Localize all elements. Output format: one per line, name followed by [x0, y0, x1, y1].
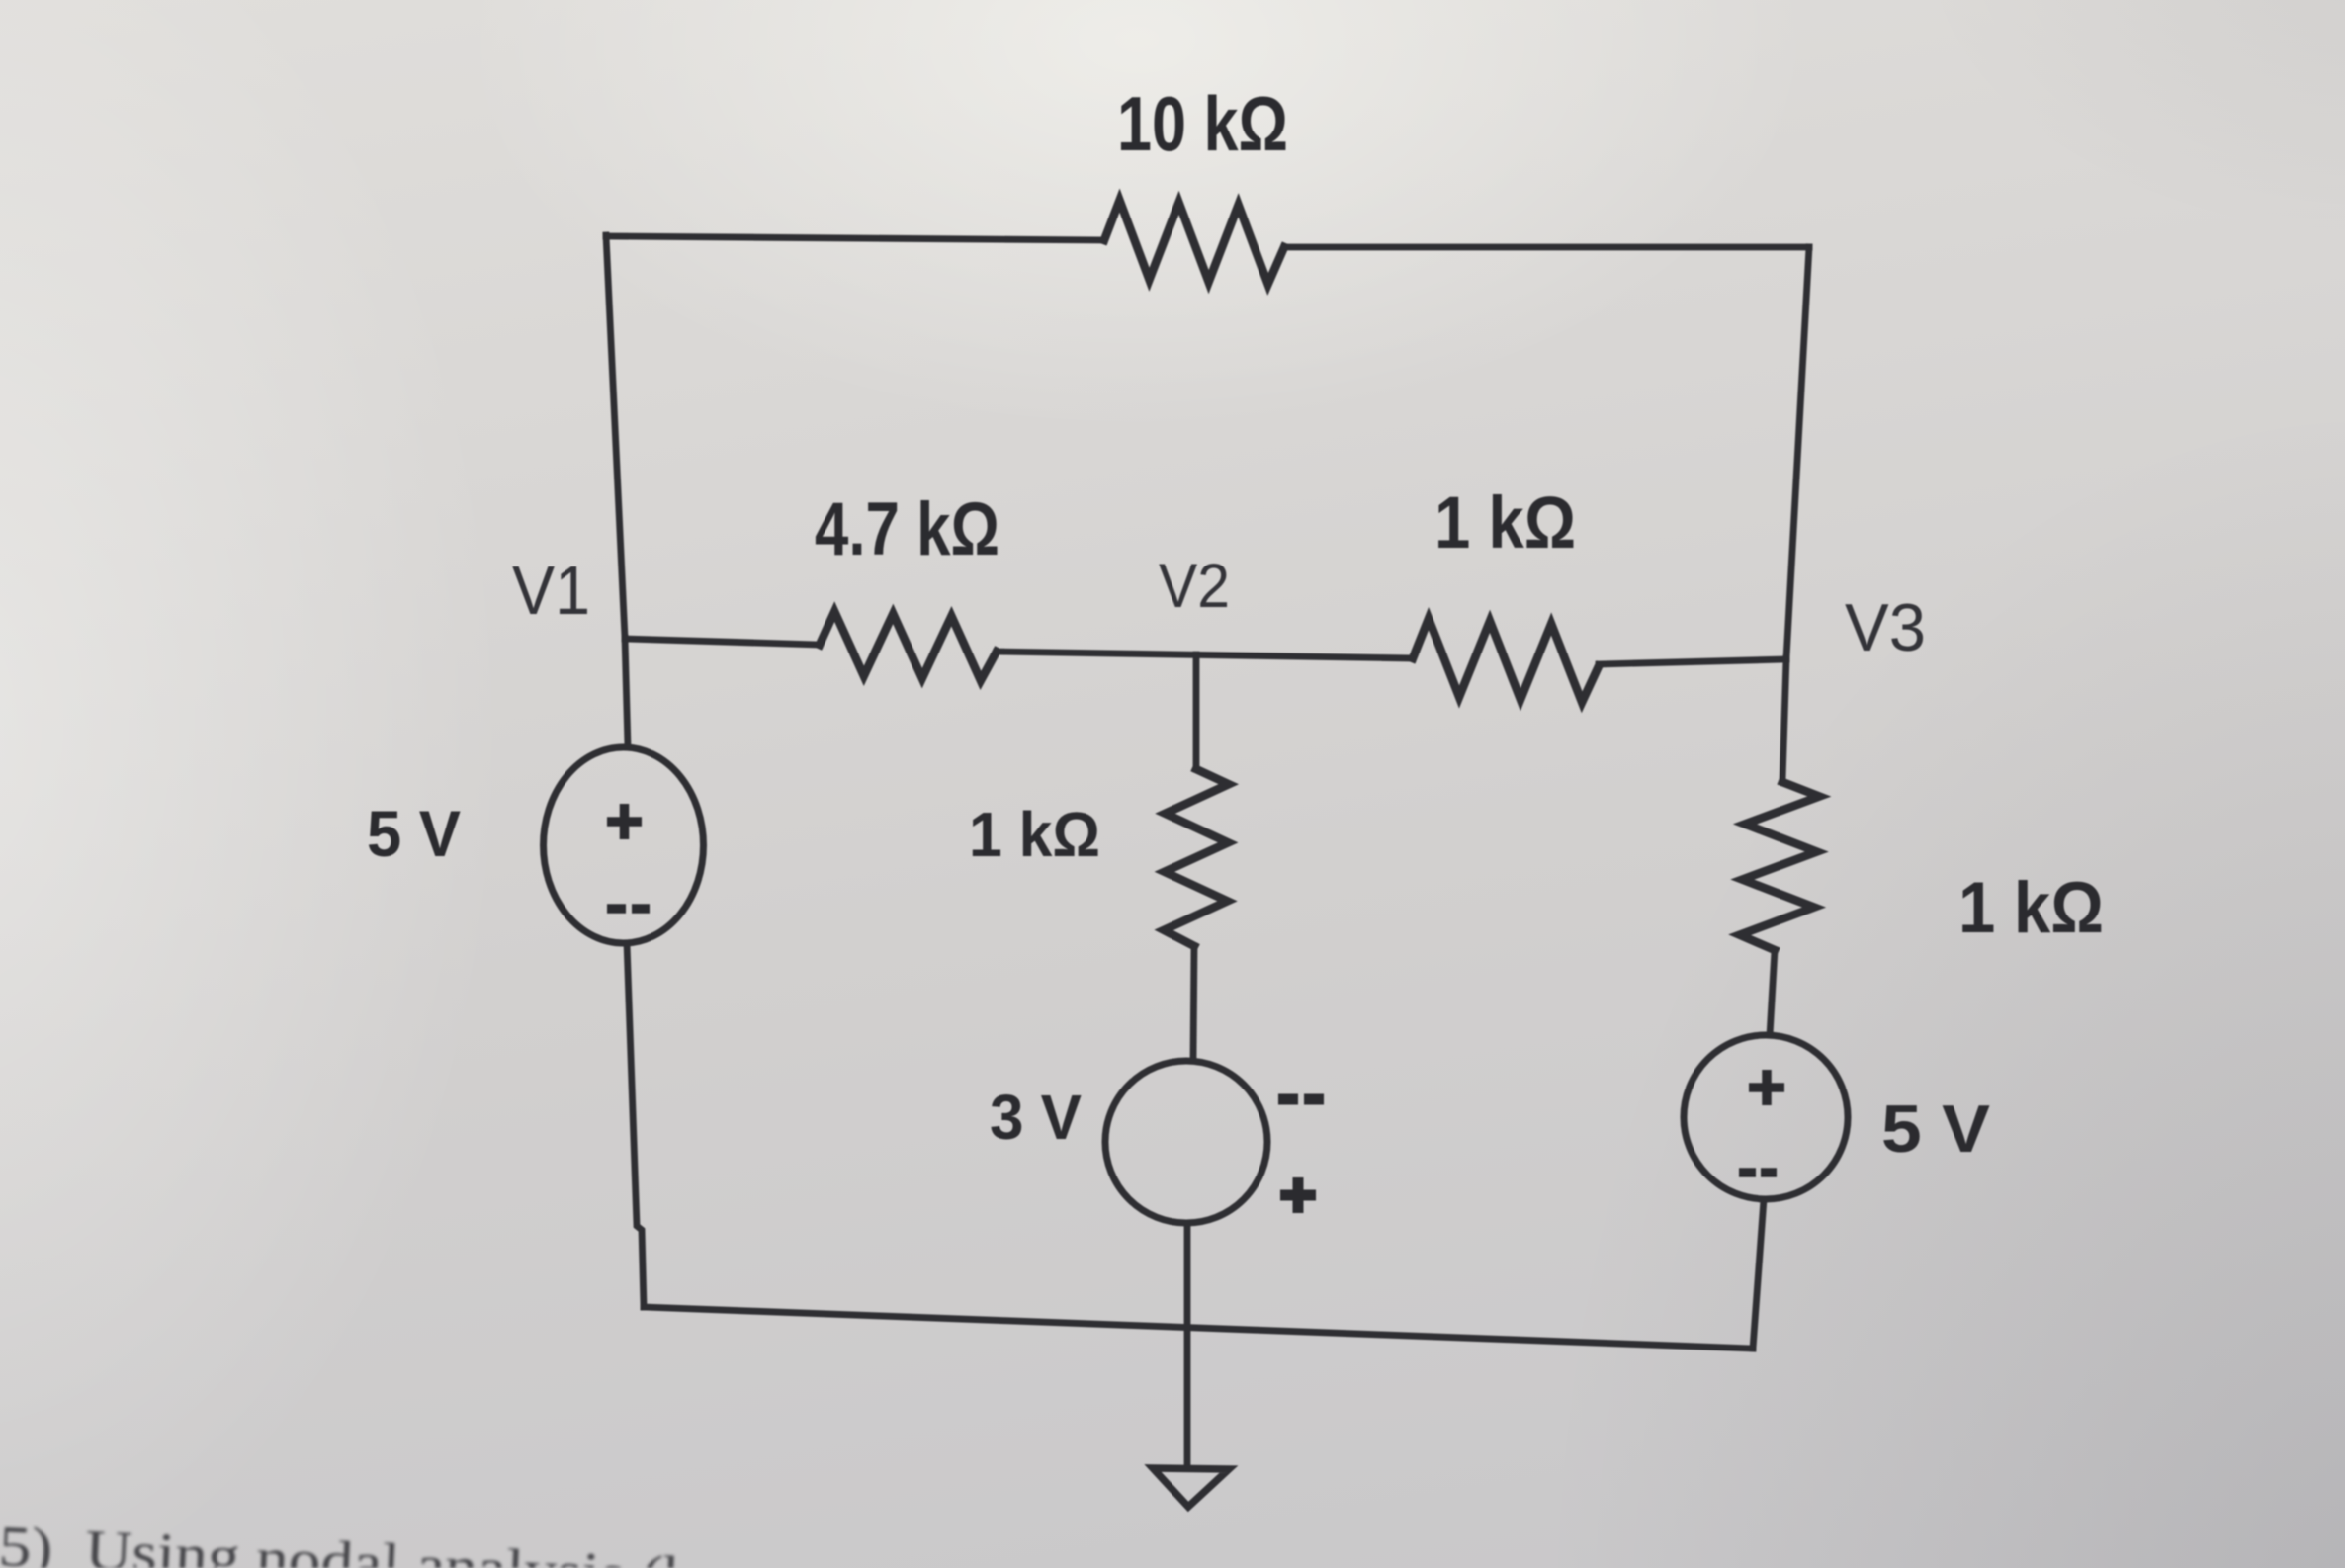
plus sign VS3 [1749, 1070, 1784, 1105]
wire R5 to source [1770, 950, 1775, 1035]
minus sign VS3 [1739, 1168, 1777, 1177]
svg-text:5) Using nodal analysis (h: 5) Using nodal analysis (h [0, 1514, 697, 1568]
source VS1 ellipse 5V left [544, 747, 704, 943]
source VS2 circle 3V [1105, 1061, 1267, 1223]
resistor R4 1k vertical middle zigzag [1164, 769, 1229, 946]
minus sign VS1 [607, 904, 650, 914]
source VS3 circle 5V right [1684, 1035, 1848, 1199]
wire VS3 to bottom corner [1753, 1199, 1764, 1349]
wire R4 to source VS2 [1193, 946, 1194, 1061]
svg-text:and calculations): and calculations) [702, 1560, 1094, 1568]
wire bottom [644, 1307, 1753, 1349]
resistor R2 4.7k zigzag [820, 612, 997, 681]
wire right vertical top [1786, 247, 1809, 658]
wire left vertical [606, 235, 625, 638]
resistor 10k zigzag [1104, 201, 1284, 285]
wire V1 to R2 [625, 639, 820, 645]
resistor R3 1k zigzag [1413, 619, 1599, 703]
wire VS2 down to ground [1184, 1223, 1191, 1465]
wire top-right segment [1284, 244, 1809, 251]
wire R2 to V2 to R3 [997, 652, 1413, 658]
minus sign VS2 [1278, 1094, 1324, 1105]
wire V2 down [1193, 654, 1200, 769]
resistor R5 1k vertical right zigzag [1740, 782, 1820, 950]
wire top-left segment [606, 236, 1104, 240]
plus sign VS1 [607, 804, 642, 839]
ground [1153, 1468, 1229, 1507]
wire V3 down [1782, 658, 1786, 782]
plus sign VS2 [1280, 1177, 1316, 1213]
wire VS1 to bottom-left corner [627, 943, 644, 1307]
wire R3 to V3 [1599, 659, 1786, 664]
wire V1 down to VS1 [625, 638, 628, 747]
